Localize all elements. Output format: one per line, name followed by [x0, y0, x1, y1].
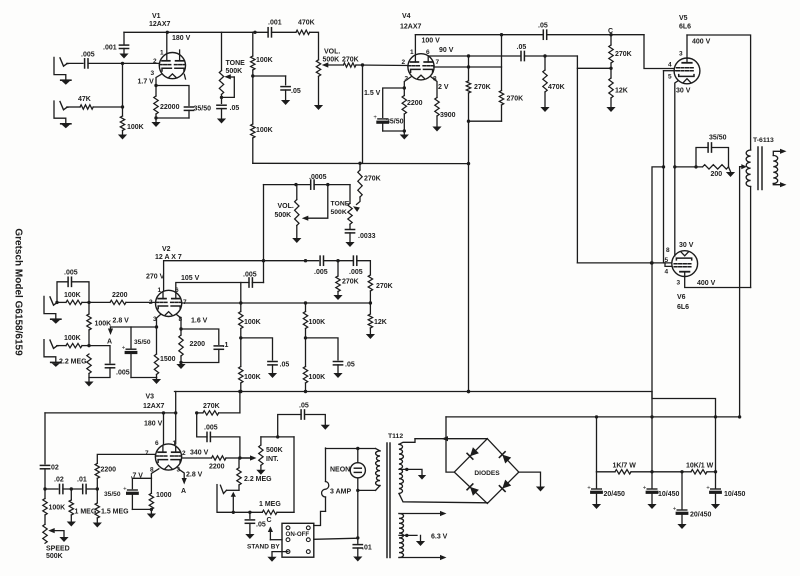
svg-text:.05: .05: [280, 362, 290, 369]
svg-text:2: 2: [182, 450, 186, 457]
svg-text:12K: 12K: [615, 88, 628, 95]
svg-text:6L6: 6L6: [679, 24, 691, 31]
svg-text:3: 3: [679, 51, 683, 58]
svg-text:12AX7: 12AX7: [400, 24, 422, 31]
svg-text:.005: .005: [314, 269, 328, 276]
svg-text:12K: 12K: [374, 319, 387, 326]
svg-text:100K: 100K: [309, 319, 326, 326]
svg-text:1: 1: [410, 49, 414, 56]
svg-text:.005: .005: [243, 272, 257, 279]
svg-text:270 V: 270 V: [146, 274, 165, 281]
svg-text:100 V: 100 V: [422, 38, 441, 45]
svg-text:V5: V5: [679, 15, 688, 22]
svg-text:340 V: 340 V: [190, 450, 209, 457]
svg-text:6: 6: [155, 440, 159, 447]
svg-text:100K: 100K: [64, 335, 81, 342]
svg-text:3: 3: [677, 280, 681, 287]
svg-text:2200: 2200: [101, 467, 117, 474]
svg-text:.005: .005: [116, 370, 130, 377]
svg-text:47K: 47K: [78, 96, 91, 103]
svg-text:400 V: 400 V: [692, 39, 711, 46]
svg-text:C: C: [267, 517, 272, 524]
svg-text:+: +: [587, 485, 591, 491]
svg-text:.05: .05: [230, 105, 240, 112]
svg-text:.05: .05: [256, 522, 266, 529]
svg-text:180 V: 180 V: [172, 35, 191, 42]
svg-text:.0033: .0033: [358, 233, 376, 240]
svg-text:400 V: 400 V: [697, 280, 716, 287]
svg-text:180 V: 180 V: [144, 421, 163, 428]
svg-text:500K: 500K: [266, 447, 283, 454]
svg-text:2.8 V: 2.8 V: [186, 472, 203, 479]
svg-text:270K: 270K: [342, 279, 359, 286]
svg-text:SPEED: SPEED: [46, 546, 70, 553]
svg-text:1.5 MEG: 1.5 MEG: [101, 509, 129, 516]
svg-text:V2: V2: [162, 246, 171, 253]
svg-text:2: 2: [153, 58, 157, 65]
svg-text:12AX7: 12AX7: [149, 21, 171, 28]
svg-text:1500: 1500: [160, 356, 176, 363]
svg-text:35/50: 35/50: [709, 135, 727, 142]
svg-text:270K: 270K: [364, 176, 381, 183]
svg-text:+: +: [123, 486, 127, 492]
svg-text:20/450: 20/450: [604, 491, 626, 498]
svg-text:100K: 100K: [127, 124, 144, 131]
svg-text:+: +: [706, 485, 710, 491]
svg-text:500K: 500K: [331, 209, 347, 216]
svg-text:20/450: 20/450: [690, 512, 712, 519]
svg-text:NEON: NEON: [330, 467, 350, 474]
svg-text:1 MEG: 1 MEG: [259, 501, 281, 508]
svg-text:V4: V4: [402, 13, 411, 20]
svg-text:35/50: 35/50: [386, 119, 404, 126]
svg-text:1K/7 W: 1K/7 W: [613, 463, 637, 470]
svg-text:1.7 V: 1.7 V: [138, 79, 155, 86]
svg-text:1000: 1000: [156, 492, 172, 499]
svg-text:6.3 V: 6.3 V: [431, 534, 448, 541]
svg-text:7: 7: [145, 450, 149, 457]
svg-text:1 MEG: 1 MEG: [75, 509, 97, 516]
svg-text:ON-OFF: ON-OFF: [286, 531, 310, 538]
svg-text:.005: .005: [204, 425, 218, 432]
svg-text:100K: 100K: [256, 127, 273, 134]
svg-text:.005: .005: [64, 270, 78, 277]
svg-text:2200: 2200: [190, 341, 206, 348]
svg-text:100K: 100K: [256, 57, 273, 64]
svg-text:500K: 500K: [226, 68, 243, 75]
svg-text:INT.: INT.: [266, 456, 279, 463]
svg-text:270K: 270K: [203, 403, 220, 410]
svg-text:2.2 MEG: 2.2 MEG: [244, 476, 272, 483]
svg-text:2200: 2200: [112, 292, 128, 299]
svg-text:100K: 100K: [49, 505, 66, 512]
svg-text:+: +: [122, 346, 126, 352]
svg-text:V6: V6: [677, 294, 686, 301]
svg-text:A: A: [107, 339, 112, 346]
svg-text:35/50: 35/50: [134, 339, 151, 346]
svg-text:35/50: 35/50: [104, 491, 121, 498]
svg-text:+: +: [643, 485, 647, 491]
svg-text:100K: 100K: [244, 374, 261, 381]
svg-text:2200: 2200: [209, 464, 225, 471]
svg-text:.0005: .0005: [309, 174, 327, 181]
svg-text:4: 4: [665, 269, 669, 276]
svg-text:A: A: [181, 488, 186, 495]
svg-text:Gretsch Model G6158/6159: Gretsch Model G6158/6159: [13, 228, 24, 356]
svg-text:.05: .05: [291, 88, 301, 95]
svg-text:3: 3: [151, 70, 155, 77]
svg-text:.1: .1: [223, 342, 229, 349]
svg-text:.001: .001: [268, 20, 282, 27]
svg-text:90 V: 90 V: [439, 47, 454, 54]
svg-text:6: 6: [426, 49, 430, 56]
svg-text:VOL.: VOL.: [278, 203, 294, 210]
svg-text:STAND BY: STAND BY: [247, 544, 280, 551]
svg-text:10/450: 10/450: [658, 491, 680, 498]
svg-text:30 V: 30 V: [676, 88, 691, 95]
svg-text:2200: 2200: [407, 100, 423, 107]
svg-text:T-6113: T-6113: [753, 137, 774, 144]
svg-text:500K: 500K: [275, 212, 292, 219]
svg-text:12AX7: 12AX7: [143, 403, 165, 410]
svg-text:.05: .05: [517, 44, 527, 51]
svg-text:100K: 100K: [95, 321, 112, 328]
svg-text:TONE: TONE: [226, 60, 246, 67]
svg-text:.05: .05: [299, 403, 309, 410]
svg-text:.05: .05: [345, 362, 355, 369]
svg-text:TONE: TONE: [331, 201, 350, 208]
svg-text:.02: .02: [54, 477, 64, 484]
svg-text:500K: 500K: [323, 57, 340, 64]
svg-text:105 V: 105 V: [181, 275, 200, 282]
svg-text:6L6: 6L6: [677, 304, 689, 311]
svg-text:VOL.: VOL.: [324, 49, 340, 56]
svg-text:270K: 270K: [474, 84, 491, 91]
svg-text:DIODES: DIODES: [474, 470, 500, 477]
svg-text:C: C: [608, 28, 613, 35]
svg-text:35/50: 35/50: [194, 106, 212, 113]
svg-text:3900: 3900: [440, 112, 456, 119]
svg-text:3 AMP: 3 AMP: [330, 489, 351, 496]
svg-text:22000: 22000: [160, 104, 180, 111]
svg-text:.01: .01: [362, 545, 372, 552]
svg-text:.02: .02: [49, 465, 59, 472]
svg-text:V1: V1: [152, 13, 161, 20]
svg-text:500K: 500K: [46, 553, 63, 560]
svg-text:470K: 470K: [548, 84, 565, 91]
svg-text:T112: T112: [388, 433, 403, 440]
svg-text:V3: V3: [146, 394, 155, 401]
svg-text:100K: 100K: [64, 292, 81, 299]
svg-text:270K: 270K: [376, 283, 393, 290]
svg-text:.001: .001: [103, 45, 117, 52]
svg-text:2.2 MEG: 2.2 MEG: [59, 359, 87, 366]
svg-text:270K: 270K: [615, 51, 632, 58]
svg-text:.005: .005: [349, 269, 363, 276]
svg-text:10K/1 W: 10K/1 W: [686, 463, 714, 470]
svg-text:2: 2: [402, 59, 406, 66]
svg-text:5: 5: [668, 74, 672, 81]
svg-text:270K: 270K: [507, 96, 524, 103]
svg-text:8: 8: [666, 247, 670, 254]
svg-text:.05: .05: [538, 23, 548, 30]
svg-text:4: 4: [668, 62, 672, 69]
svg-text:2.8 V: 2.8 V: [113, 318, 130, 325]
svg-text:+: +: [673, 506, 677, 512]
svg-text:2 V: 2 V: [438, 84, 449, 91]
svg-text:.005: .005: [81, 52, 95, 59]
svg-text:1: 1: [158, 287, 162, 294]
svg-text:470K: 470K: [298, 20, 315, 27]
svg-text:1.6 V: 1.6 V: [191, 318, 208, 325]
svg-text:1.5 V: 1.5 V: [364, 90, 381, 97]
svg-text:1: 1: [160, 50, 164, 57]
svg-text:100K: 100K: [244, 319, 261, 326]
svg-text:.7 V: .7 V: [131, 473, 144, 480]
svg-text:12 A X 7: 12 A X 7: [155, 254, 182, 261]
svg-text:.01: .01: [77, 477, 87, 484]
svg-text:30 V: 30 V: [679, 242, 694, 249]
svg-text:200: 200: [711, 171, 723, 178]
svg-text:7: 7: [436, 59, 440, 66]
svg-text:10/450: 10/450: [724, 491, 746, 498]
svg-text:+: +: [373, 115, 377, 121]
svg-text:100K: 100K: [309, 374, 326, 381]
